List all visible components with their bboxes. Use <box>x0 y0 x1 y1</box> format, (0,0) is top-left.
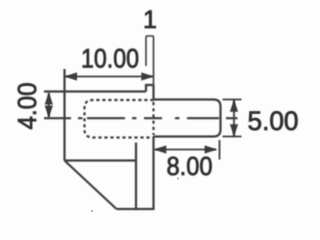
dimension line 8.00 <box>155 149 216 151</box>
svg-text:1: 1 <box>143 6 157 34</box>
pin hidden outline inside body (dashed) <box>85 100 154 138</box>
arrow 4.00 down <box>45 106 53 119</box>
arrow 8.00 right <box>205 145 218 153</box>
dimension line 10.00 <box>65 76 153 78</box>
svg-text:10.00: 10.00 <box>81 44 139 74</box>
arrow 10.00 right <box>141 72 154 80</box>
scan speckle under 8.00 <box>177 177 179 179</box>
body left edge with 10.00 extension line <box>63 69 65 161</box>
slanted front edge <box>65 161 117 210</box>
arrow 8.00 left <box>154 145 167 153</box>
arrow 5.00 down <box>230 124 238 137</box>
arrow 5.00 up <box>230 99 238 112</box>
dimension line 5.00 <box>233 100 235 136</box>
body right edge lower solid <box>152 137 154 210</box>
centerline (dash-dot) with 4.00 lower extension <box>44 117 238 119</box>
arrow 4.00 up <box>45 92 53 105</box>
dimension line 4.00 <box>48 93 50 117</box>
8.00 right extension line <box>219 140 221 160</box>
body mid horizontal edge <box>65 159 137 161</box>
body top edge with 4.00 extension line <box>44 90 146 92</box>
5.00 extension lines <box>223 100 242 137</box>
svg-text:5.00: 5.00 <box>248 106 299 136</box>
step notch top <box>146 85 154 92</box>
dimension 1: extension lines and dim bar <box>146 36 154 85</box>
svg-text:8.00: 8.00 <box>167 151 213 181</box>
body bottom edge <box>117 208 154 210</box>
body right edge upper solid <box>152 85 154 100</box>
body right edge hidden behind pin (dashed) <box>152 102 154 135</box>
pin (shaft) visible outline <box>154 100 221 137</box>
scan speckle near slant <box>91 210 93 212</box>
vertical rib edge <box>135 143 137 210</box>
arrow 10.00 left <box>65 72 78 80</box>
svg-text:4.00: 4.00 <box>12 83 42 130</box>
